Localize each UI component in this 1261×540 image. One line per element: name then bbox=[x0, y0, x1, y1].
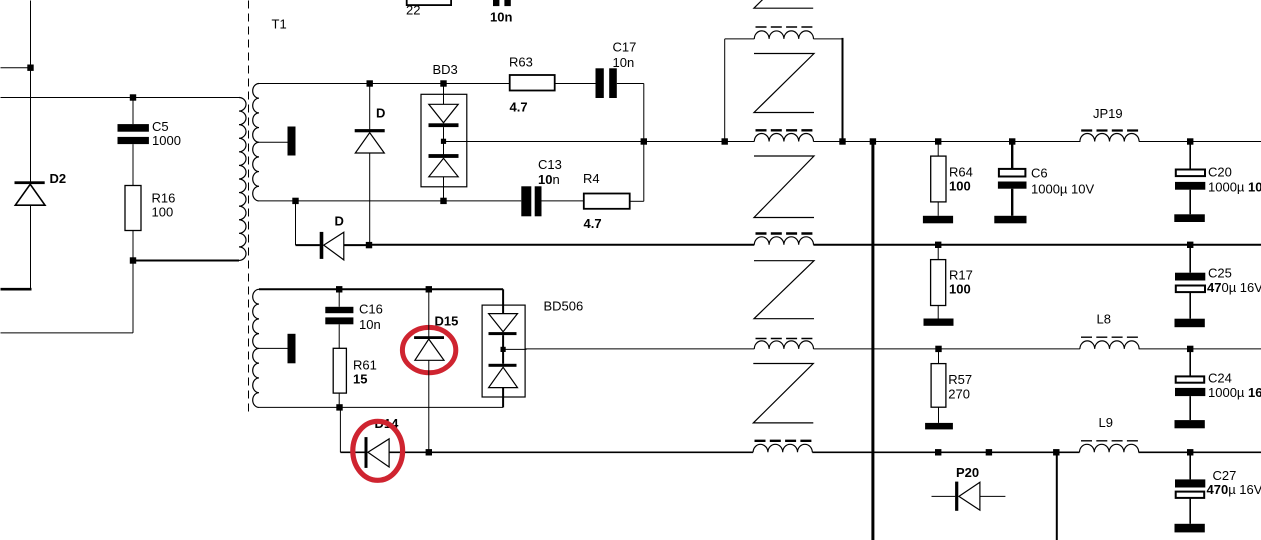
svg-text:C20: C20 bbox=[1208, 165, 1232, 180]
node rail1 C17 corner bbox=[641, 138, 647, 144]
node rail1 R64 bbox=[935, 138, 941, 144]
svg-text:10n: 10n bbox=[538, 172, 560, 187]
transformer T1 secondary winding 2 bbox=[253, 289, 259, 407]
wire ground bus vertical bbox=[871, 142, 874, 540]
diode D (horizontal, lower) bbox=[296, 201, 370, 260]
svg-text:470µ 16V: 470µ 16V bbox=[1207, 482, 1261, 497]
node rail2 R17 bbox=[935, 242, 941, 248]
svg-text:D: D bbox=[335, 214, 344, 229]
svg-text:C24: C24 bbox=[1208, 371, 1232, 386]
wire stub to left edge bbox=[1, 67, 31, 69]
svg-text:BD3: BD3 bbox=[433, 62, 458, 77]
inductor JP19 bbox=[1080, 131, 1139, 142]
capacitor C5 bbox=[118, 98, 149, 186]
node rail1 bus bbox=[870, 138, 876, 144]
capacitor C27 bbox=[1175, 452, 1205, 524]
resistor R61 bbox=[333, 348, 346, 407]
transformer T1 secondary 1 shield tap bbox=[259, 141, 288, 143]
inductor L9 bbox=[1080, 441, 1139, 453]
svg-text:22: 22 bbox=[406, 3, 420, 18]
node C5 top bbox=[130, 94, 136, 100]
node rail4 b bbox=[986, 449, 992, 455]
svg-text:C6: C6 bbox=[1031, 166, 1048, 181]
ground R64 bbox=[923, 216, 953, 224]
wire rail2 bbox=[369, 244, 754, 246]
wire left bottom corner thick bbox=[1, 288, 32, 291]
diode P20 bbox=[932, 482, 1006, 511]
wire down-left return bbox=[132, 261, 134, 333]
node rail1 loop left bbox=[722, 138, 728, 144]
svg-text:T1: T1 bbox=[272, 17, 287, 32]
svg-text:1000µ 10V: 1000µ 10V bbox=[1031, 182, 1094, 197]
node diode D output bbox=[366, 242, 372, 248]
transformer T1 core dashed line bbox=[248, 1, 250, 416]
node rail1 loop right bbox=[839, 138, 845, 144]
svg-text:100: 100 bbox=[152, 205, 174, 220]
node rail4 D15 bbox=[426, 449, 432, 455]
svg-text:100: 100 bbox=[949, 179, 971, 194]
wire top loop right bbox=[813, 38, 842, 40]
svg-text:10n: 10n bbox=[359, 317, 381, 332]
svg-text:1000µ 16V: 1000µ 16V bbox=[1208, 385, 1261, 400]
wire C17 output corner down bbox=[643, 84, 645, 202]
svg-text:4.7: 4.7 bbox=[510, 100, 528, 115]
capacitor C25 bbox=[1175, 245, 1205, 319]
resistor 22 (cut at top) bbox=[407, 0, 451, 5]
transformer T1 secondary winding 1 bbox=[253, 84, 259, 201]
svg-text:R16: R16 bbox=[152, 191, 176, 206]
node junction left stub bbox=[27, 65, 33, 71]
svg-text:1000µ 10V: 1000µ 10V bbox=[1208, 180, 1261, 195]
choke winding on rail2 bbox=[756, 232, 813, 234]
wire left vertical input bus bbox=[30, 1, 32, 182]
diode D14 bbox=[365, 437, 390, 468]
node rail4 a bbox=[935, 449, 941, 455]
choke winding on rail3 bbox=[756, 338, 813, 340]
resistor R4 bbox=[584, 194, 630, 209]
winding Z symbol 4 bbox=[753, 364, 813, 423]
node secondary1 bottom left bbox=[292, 198, 298, 204]
choke winding on rail1 bbox=[756, 129, 813, 131]
svg-text:D15: D15 bbox=[435, 314, 459, 329]
resistor R64 bbox=[931, 142, 946, 216]
capacitor C17 bbox=[596, 68, 617, 98]
diode D (vertical) bbox=[355, 84, 385, 246]
ground C24 bbox=[1175, 420, 1205, 428]
node BD3 top bbox=[440, 80, 446, 86]
svg-text:P20: P20 bbox=[956, 465, 979, 480]
svg-text:L9: L9 bbox=[1099, 415, 1113, 430]
dual diode BD3 bbox=[421, 84, 467, 201]
svg-text:C5: C5 bbox=[152, 119, 169, 134]
wire rail3 bbox=[503, 348, 754, 350]
diode D2 bbox=[15, 181, 46, 205]
ground C6 bbox=[994, 216, 1026, 224]
wire secondary1 top bbox=[259, 83, 596, 85]
inductor L8 bbox=[1080, 337, 1139, 349]
wire top loop left bbox=[725, 38, 755, 40]
node rail3 C24 bbox=[1187, 346, 1193, 352]
node rail1 C6 bbox=[1009, 138, 1015, 144]
svg-text:C27: C27 bbox=[1213, 468, 1237, 483]
wire primary top horizontal bbox=[1, 97, 240, 99]
svg-text:D2: D2 bbox=[50, 171, 67, 186]
wire vertical below rail4 bbox=[1056, 452, 1058, 540]
transformer T1 primary winding bbox=[239, 98, 246, 261]
wire secondary1 bottom bbox=[259, 200, 521, 202]
svg-text:10n: 10n bbox=[490, 10, 512, 25]
resistor R57 bbox=[931, 349, 946, 423]
ground C20 bbox=[1174, 214, 1205, 222]
winding Z symbol top (cut) bbox=[754, 0, 813, 8]
svg-text:10n: 10n bbox=[613, 55, 635, 70]
svg-text:R63: R63 bbox=[509, 55, 533, 70]
svg-text:C17: C17 bbox=[613, 39, 637, 54]
svg-text:R4: R4 bbox=[583, 171, 600, 186]
node rail1 C20 bbox=[1187, 138, 1193, 144]
resistor R16 bbox=[125, 186, 141, 261]
node rail4 c bbox=[1053, 449, 1059, 455]
svg-text:L8: L8 bbox=[1097, 312, 1111, 327]
node C16 top bbox=[336, 286, 342, 292]
svg-text:R61: R61 bbox=[353, 358, 377, 373]
svg-text:D: D bbox=[376, 106, 385, 121]
wire secondary2 bottom bbox=[259, 406, 503, 408]
svg-text:1000: 1000 bbox=[152, 133, 181, 148]
node rail4 C27 bbox=[1187, 449, 1193, 455]
diode D15 bbox=[414, 289, 444, 452]
dual diode BD506 bbox=[482, 305, 526, 407]
node rail3 R57 bbox=[935, 346, 941, 352]
ground C25 bbox=[1175, 319, 1205, 328]
capacitor C16 bbox=[325, 289, 353, 348]
node R16 bottom bbox=[130, 257, 136, 263]
ground R17 bbox=[924, 319, 954, 326]
svg-text:270: 270 bbox=[948, 387, 970, 402]
capacitor C24 bbox=[1175, 349, 1205, 420]
node rail2 C25 bbox=[1187, 242, 1193, 248]
winding Z symbol 3 bbox=[754, 261, 814, 319]
node diode D top bbox=[367, 80, 373, 86]
svg-text:R57: R57 bbox=[948, 372, 972, 387]
svg-text:R64: R64 bbox=[949, 165, 973, 180]
svg-text:C13: C13 bbox=[538, 157, 562, 172]
svg-text:100: 100 bbox=[949, 282, 971, 297]
svg-text:BD506: BD506 bbox=[544, 299, 584, 314]
svg-text:C25: C25 bbox=[1208, 266, 1232, 281]
svg-text:15: 15 bbox=[353, 372, 367, 387]
choke winding on rail4 bbox=[755, 440, 812, 442]
wire R61 corner to rail4 bbox=[339, 407, 341, 452]
transformer T1 secondary 2 shield tap bbox=[259, 347, 288, 349]
wire primary bottom bbox=[133, 260, 239, 262]
svg-text:470µ 16V: 470µ 16V bbox=[1207, 280, 1261, 295]
svg-text:R17: R17 bbox=[949, 268, 973, 283]
node D15 top bbox=[426, 286, 432, 292]
highlight circle D14 bbox=[353, 421, 403, 480]
resistor R63 bbox=[510, 75, 555, 91]
node R61 bottom bbox=[336, 404, 342, 410]
capacitor C13 bbox=[521, 186, 541, 216]
node BD3 bottom bbox=[440, 198, 446, 204]
winding Z symbol 2 bbox=[754, 156, 814, 218]
wire rail1 bbox=[444, 141, 755, 143]
ground C27 bbox=[1175, 524, 1205, 533]
wire secondary2 top bbox=[259, 288, 503, 290]
svg-text:C16: C16 bbox=[359, 302, 383, 317]
winding Z symbol 1 bbox=[754, 54, 814, 113]
svg-text:4.7: 4.7 bbox=[584, 216, 602, 231]
capacitor C6 bbox=[998, 142, 1027, 216]
ground R57 bbox=[925, 423, 953, 430]
choke winding top (cut) bbox=[756, 26, 813, 28]
highlight circle D15 bbox=[402, 327, 455, 372]
svg-text:JP19: JP19 bbox=[1093, 106, 1123, 121]
capacitor C20 bbox=[1175, 142, 1205, 215]
resistor R17 bbox=[931, 245, 946, 319]
capacitor 10n (cut at top) bbox=[493, 0, 499, 6]
wire rail4 bbox=[340, 451, 364, 453]
